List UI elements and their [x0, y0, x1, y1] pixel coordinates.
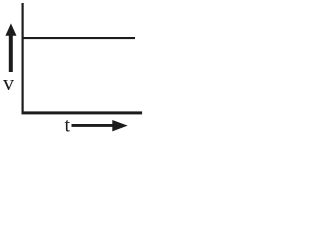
svg-text:v: v — [3, 70, 14, 95]
svg-text:t: t — [65, 114, 71, 135]
